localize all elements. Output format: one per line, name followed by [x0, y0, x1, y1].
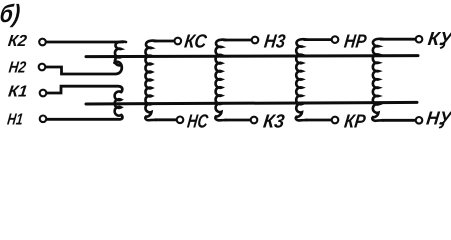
- svg-text:НУ: НУ: [425, 109, 451, 130]
- svg-text:КР: КР: [343, 112, 367, 132]
- svg-text:Н2: Н2: [8, 59, 27, 77]
- svg-text:КС: КС: [183, 32, 208, 53]
- svg-text:Н1: Н1: [6, 111, 24, 129]
- svg-text:б): б): [0, 0, 22, 28]
- svg-text:К1: К1: [7, 83, 28, 101]
- svg-text:К3: К3: [262, 112, 286, 132]
- svg-text:К2: К2: [7, 32, 28, 50]
- svg-text:НС: НС: [186, 112, 209, 132]
- svg-text:Н3: Н3: [263, 32, 287, 53]
- svg-text:НР: НР: [343, 32, 368, 53]
- svg-text:КУ: КУ: [427, 29, 451, 50]
